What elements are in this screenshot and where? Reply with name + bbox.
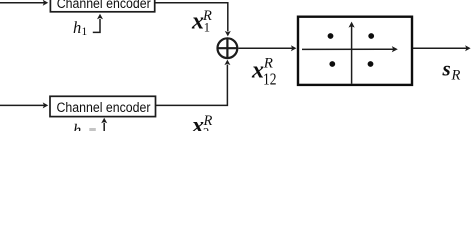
svg-text:Channel encoder: Channel encoder [57, 100, 151, 116]
axis: in-phase (horizontal) inside U3 [302, 46, 398, 52]
label x1^R [191, 8, 212, 35]
svg-text:R: R [451, 68, 461, 84]
label s_R [442, 57, 461, 84]
constellation point: bottom-right [368, 61, 374, 67]
wire: adder to constellation mapper U3 [238, 45, 296, 51]
arrow: h2 into U2 (bent up-arrow, foot cut off) [89, 118, 107, 131]
constellation point: top-left [328, 33, 334, 39]
label x2^R (partially cut at bottom) [191, 113, 213, 140]
arrow: h1 into U1 (bent up-arrow) [93, 14, 103, 33]
wire: input into channel encoder U2 [0, 102, 48, 108]
svg-text:2: 2 [203, 126, 209, 132]
svg-text:Channel encoder: Channel encoder [57, 0, 151, 12]
constellation point: bottom-left [329, 61, 335, 67]
block U3: constellation mapper [298, 17, 412, 85]
block U1: Channel encoder (top) [50, 0, 154, 12]
wire: input into channel encoder U1 [0, 0, 48, 6]
label h2 (partially cut at bottom) [73, 121, 81, 140]
svg-text:12: 12 [263, 70, 277, 89]
axis: quadrature (vertical) inside U3 [349, 22, 355, 84]
wire: U2 output to adder [156, 60, 231, 106]
svg-text:s: s [442, 57, 451, 81]
svg-text:h: h [73, 18, 81, 37]
svg-text:h: h [73, 121, 81, 132]
wire: U3 output s_R [413, 45, 471, 51]
svg-text:1: 1 [204, 21, 210, 35]
wire: U1 output to adder [155, 3, 231, 37]
svg-text:1: 1 [82, 26, 88, 38]
adder: summing junction [218, 38, 238, 58]
block U2: Channel encoder (bottom) [50, 96, 156, 116]
label h1 [73, 18, 88, 38]
label x12^R [251, 55, 277, 88]
constellation point: top-right [368, 33, 374, 39]
